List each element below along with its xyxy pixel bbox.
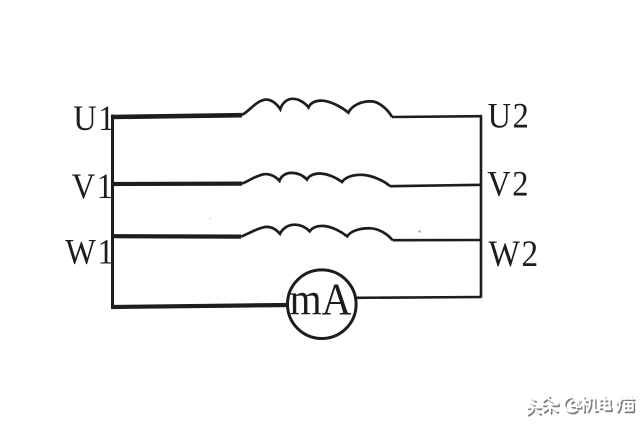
wire: W1 lead (thick) <box>111 234 241 239</box>
wire: right vertical bus <box>480 116 483 298</box>
wire: W2 lead <box>393 239 483 242</box>
winding L1 (U1-U2) <box>242 99 392 117</box>
svg-text:mA: mA <box>290 274 352 325</box>
wire: V2 lead <box>390 185 482 186</box>
wire: bottom right segment <box>356 296 481 299</box>
svg-text:W2: W2 <box>489 233 540 274</box>
svg-text:U1: U1 <box>73 98 116 138</box>
svg-text:V2: V2 <box>487 164 530 204</box>
wire: U1 lead (thick) <box>111 115 242 117</box>
svg-text:W1: W1 <box>65 232 115 272</box>
winding L3 (W1-W2) <box>241 225 393 241</box>
svg-text:U2: U2 <box>488 96 531 136</box>
wire: left vertical bus <box>111 115 114 309</box>
wire: V1 lead (thick) <box>111 182 242 187</box>
winding L2 (V1-V2) <box>242 173 390 186</box>
wire: U2 lead <box>392 115 482 118</box>
svg-text:V1: V1 <box>72 166 115 206</box>
wire: bottom left segment (thick) <box>111 305 289 307</box>
ammeter M1 (mA) <box>288 270 357 339</box>
